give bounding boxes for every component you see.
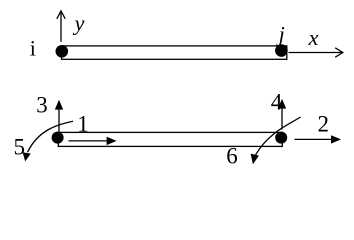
dof 1 arrow (axial, left): [69, 137, 117, 145]
dof 6 rotation arrow (right): [251, 117, 301, 164]
x-axis arrow: [289, 48, 343, 57]
svg-text:y: y: [73, 10, 85, 35]
dof 2 arrow (axial, right): [295, 135, 342, 143]
dof 4 arrow (transverse, right): [278, 99, 286, 130]
node 2 (bottom right): [275, 132, 287, 144]
svg-text:i: i: [30, 36, 36, 61]
node 1 (bottom left): [52, 132, 64, 144]
svg-text:6: 6: [226, 144, 238, 169]
dof 3 arrow (transverse, left): [55, 100, 63, 132]
beam element (bottom figure): [58, 132, 282, 146]
svg-text:3: 3: [36, 93, 48, 118]
svg-text:2: 2: [317, 112, 329, 137]
svg-text:x: x: [308, 25, 319, 50]
dof 5 rotation arrow (left): [23, 121, 73, 161]
node j: [275, 44, 288, 57]
node i: [56, 45, 69, 58]
svg-text:4: 4: [271, 90, 283, 115]
y-axis arrow: [57, 11, 65, 42]
svg-text:5: 5: [14, 135, 26, 160]
svg-text:1: 1: [77, 112, 89, 137]
svg-text:j: j: [276, 22, 285, 47]
beam element (top figure): [62, 46, 287, 59]
